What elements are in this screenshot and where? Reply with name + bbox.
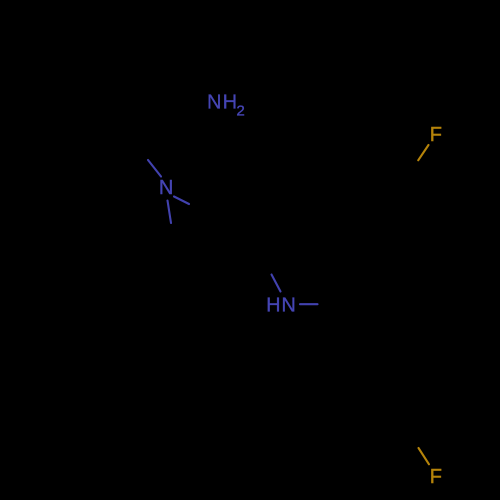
bond F top — [418, 145, 428, 160]
bond N-CH3 lower-right — [174, 197, 189, 205]
bond F bottom — [419, 448, 430, 464]
svg-text:N: N — [159, 177, 173, 199]
bond N-CH3 down — [168, 201, 172, 224]
svg-text:HN: HN — [266, 295, 297, 317]
amine NH2 — [207, 92, 245, 120]
bond N-CH3 upper-left — [148, 160, 161, 177]
svg-text:F: F — [430, 466, 442, 488]
svg-text:F: F — [430, 124, 442, 146]
bond HN up-left — [272, 275, 281, 292]
bond HN-CH3 right — [300, 303, 318, 305]
svg-text:NH: NH — [207, 92, 238, 114]
svg-text:2: 2 — [236, 102, 244, 119]
